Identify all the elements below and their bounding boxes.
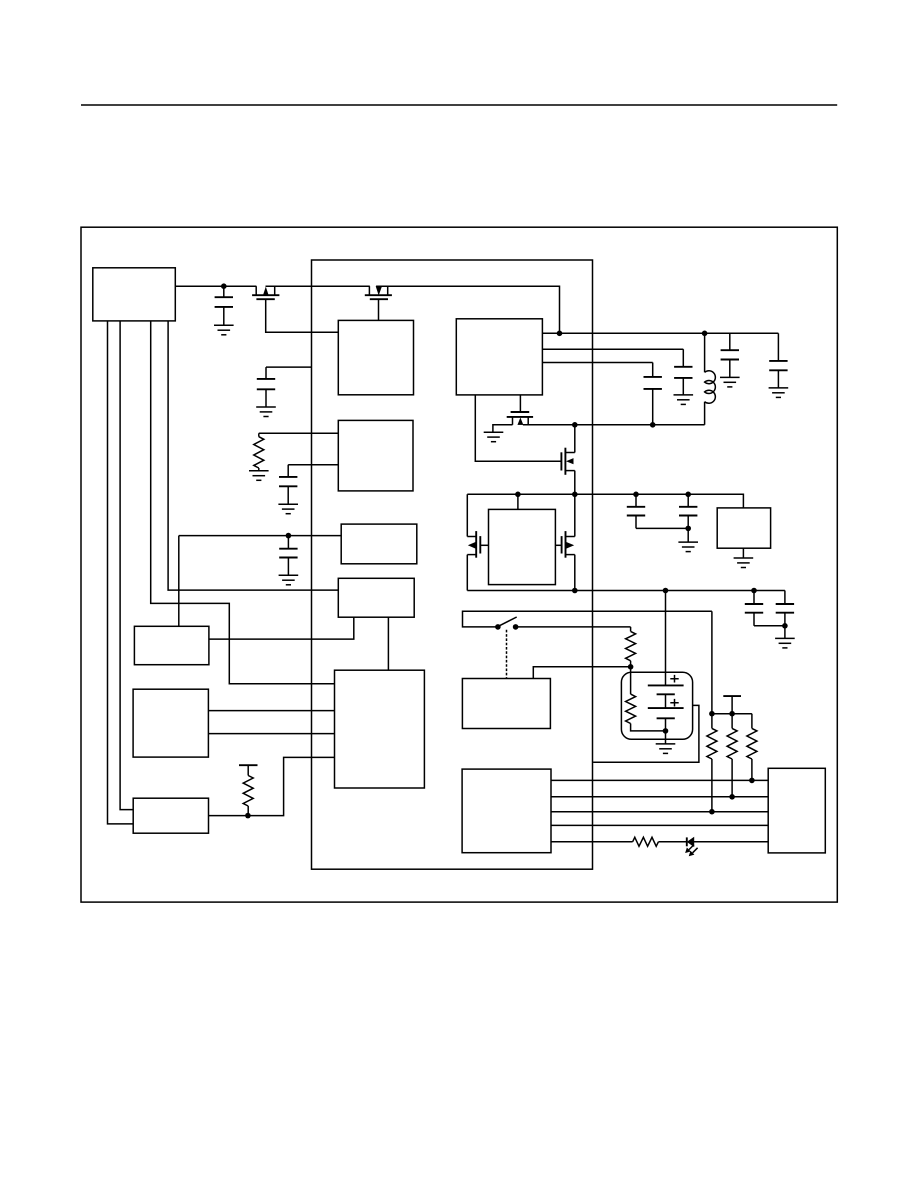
ground U15 — [734, 548, 754, 567]
wire divider top bus — [712, 713, 752, 715]
block U6 — [338, 578, 414, 617]
block U8 (center controller) — [335, 670, 425, 788]
resistor R1 — [254, 433, 264, 471]
block U16 (fuel gauge) — [462, 679, 550, 729]
resistor R3 — [626, 627, 636, 667]
ground Q3 — [484, 432, 504, 442]
ground C1 — [214, 325, 234, 335]
node R2 junction — [245, 813, 251, 819]
wire switch to R3 — [516, 626, 631, 628]
wire bus 5 right — [694, 841, 768, 843]
switch linkage — [506, 630, 508, 679]
ground battery — [656, 744, 676, 754]
wire U14 pin to Q3 gate — [519, 395, 521, 412]
inductor L1 — [705, 333, 716, 425]
wire U14 out2 — [542, 348, 683, 350]
ground C7 — [674, 395, 694, 405]
resistor R7 — [747, 714, 757, 781]
node C11/C12 junctions — [751, 588, 788, 629]
resistor R5 — [707, 714, 717, 812]
block U9 — [133, 689, 208, 757]
wire C2 to IC — [266, 366, 312, 368]
resistor R8 — [633, 837, 659, 846]
wire U14 pin to Q4 gate — [475, 395, 561, 461]
wire C11 to C12 — [754, 625, 785, 627]
block U3 — [338, 320, 413, 394]
block U13 (gate driver) — [489, 509, 556, 584]
node bridge junctions — [515, 492, 577, 594]
wire SW node W4 — [523, 424, 705, 426]
ground C3 — [278, 504, 298, 514]
wire Q2 gate to U3 — [378, 299, 380, 320]
wire left FET rail — [466, 494, 468, 590]
capacitor C1 — [215, 286, 233, 325]
wire switch feed — [463, 611, 712, 627]
block U4 — [338, 420, 413, 491]
wire bus 4 — [551, 824, 768, 826]
wire bus 1 — [551, 779, 768, 781]
node C1 junction — [221, 283, 227, 289]
block U15 — [717, 508, 770, 548]
LED D1 — [686, 837, 698, 856]
capacitor C9 — [627, 494, 645, 528]
wire U2 pin4 to U6 — [168, 321, 338, 590]
wire R1 to U4 — [259, 432, 339, 434]
wire C9 to C10 — [636, 527, 688, 529]
node Q4 drain junction — [572, 422, 578, 428]
resistor R4 — [626, 667, 666, 731]
node C4 junction — [286, 533, 292, 539]
node bus junctions — [709, 778, 755, 815]
wire U2 pin2 to U10 — [120, 321, 133, 810]
node W0/VOUT junction — [557, 331, 563, 337]
wire VIN from U2 — [175, 285, 256, 287]
figure border — [81, 227, 837, 902]
wire U2 pin3 to U8 — [151, 321, 335, 684]
block U5 — [341, 524, 417, 564]
battery plus sign 2 — [670, 699, 678, 707]
wire right FET rail — [574, 494, 576, 590]
ground C5 — [720, 377, 740, 387]
header rule — [81, 104, 837, 106]
wire bus 3 — [551, 811, 768, 813]
wire U6 to U8 — [387, 617, 389, 670]
wire battery mid tap — [593, 705, 699, 762]
wire Q3 source to ground — [493, 425, 513, 432]
ground C2 — [256, 407, 276, 417]
wire U9 out2 to U8 — [208, 733, 334, 735]
wire U10 to U8 — [209, 757, 335, 815]
terminal T1 bar — [723, 696, 741, 714]
ground C6 — [769, 388, 789, 398]
ground C10 — [678, 542, 698, 552]
node battery top junction — [663, 588, 669, 594]
transistor Q6 — [555, 531, 574, 558]
block U14 (charger) — [456, 319, 542, 395]
capacitor C2 — [257, 367, 275, 407]
block U10 — [133, 798, 208, 833]
wire U7 to U6 — [209, 617, 354, 639]
IC U1 boundary — [312, 260, 593, 869]
block U12 (bottom-right connector) — [768, 768, 825, 853]
capacitor C8 — [644, 363, 662, 425]
wire C4 node to U5 — [179, 535, 341, 537]
wire U9 out1 to U8 — [208, 710, 334, 712]
capacitor C10 — [679, 494, 697, 542]
wire bridge bottom rail — [467, 590, 785, 592]
wire VIN between Q1 and Q2 — [266, 285, 370, 287]
block U2 (top-left input) — [93, 268, 176, 321]
wire Q1 gate to U3 — [266, 299, 339, 332]
node L1 top junction — [702, 331, 708, 337]
node R3 bottom junction — [628, 664, 634, 670]
ground R1 — [249, 471, 269, 481]
battery BT1 cells — [648, 685, 684, 744]
wire U14 out3 — [542, 362, 652, 364]
wire U13 top pin — [517, 494, 519, 509]
capacitor C3 — [279, 465, 297, 505]
node C8 bottom junction — [650, 422, 656, 428]
transistor Q2 — [365, 286, 392, 299]
resistor R6 — [727, 714, 737, 797]
capacitor C7 — [674, 349, 692, 395]
wire U2 pin1 to U10 — [108, 321, 134, 824]
ground C12 — [775, 638, 795, 648]
wire C3 to U4 — [288, 464, 338, 466]
capacitor C12 — [776, 591, 794, 639]
wire R3 node to U16 — [533, 667, 630, 679]
transistor Q1 — [252, 286, 279, 299]
wire Q4 drain rail — [574, 425, 576, 495]
node battery bottom junction — [663, 728, 669, 734]
wire bus 5 left — [551, 841, 633, 843]
wire bus 2 — [551, 796, 768, 798]
wire U14 out1 (VOUT) — [542, 332, 778, 334]
capacitor C11 — [745, 591, 763, 626]
node divider junctions — [709, 711, 735, 717]
resistor R2 — [239, 765, 258, 815]
switch S1 — [495, 617, 518, 630]
wire bridge top rail — [467, 494, 743, 508]
wire R8 to D1 — [658, 841, 686, 843]
wire node to U7 — [178, 536, 180, 627]
ground C4 — [279, 575, 299, 585]
block U7 — [134, 626, 209, 664]
transistor Q3 — [507, 412, 533, 425]
node C9/C10 junctions — [633, 492, 691, 532]
transistor Q5 — [467, 531, 488, 558]
wire VIN to charger node — [376, 286, 559, 333]
capacitor C4 — [279, 536, 297, 576]
transistor Q4 — [561, 448, 574, 475]
capacitor C5 — [721, 333, 739, 377]
wire R5 feed — [711, 611, 713, 713]
capacitor C6 — [769, 333, 787, 388]
battery plus sign 1 — [670, 675, 678, 683]
wire battery positive — [665, 591, 667, 686]
battery pack outline — [621, 672, 692, 739]
block U11 (bottom interface) — [462, 769, 551, 853]
